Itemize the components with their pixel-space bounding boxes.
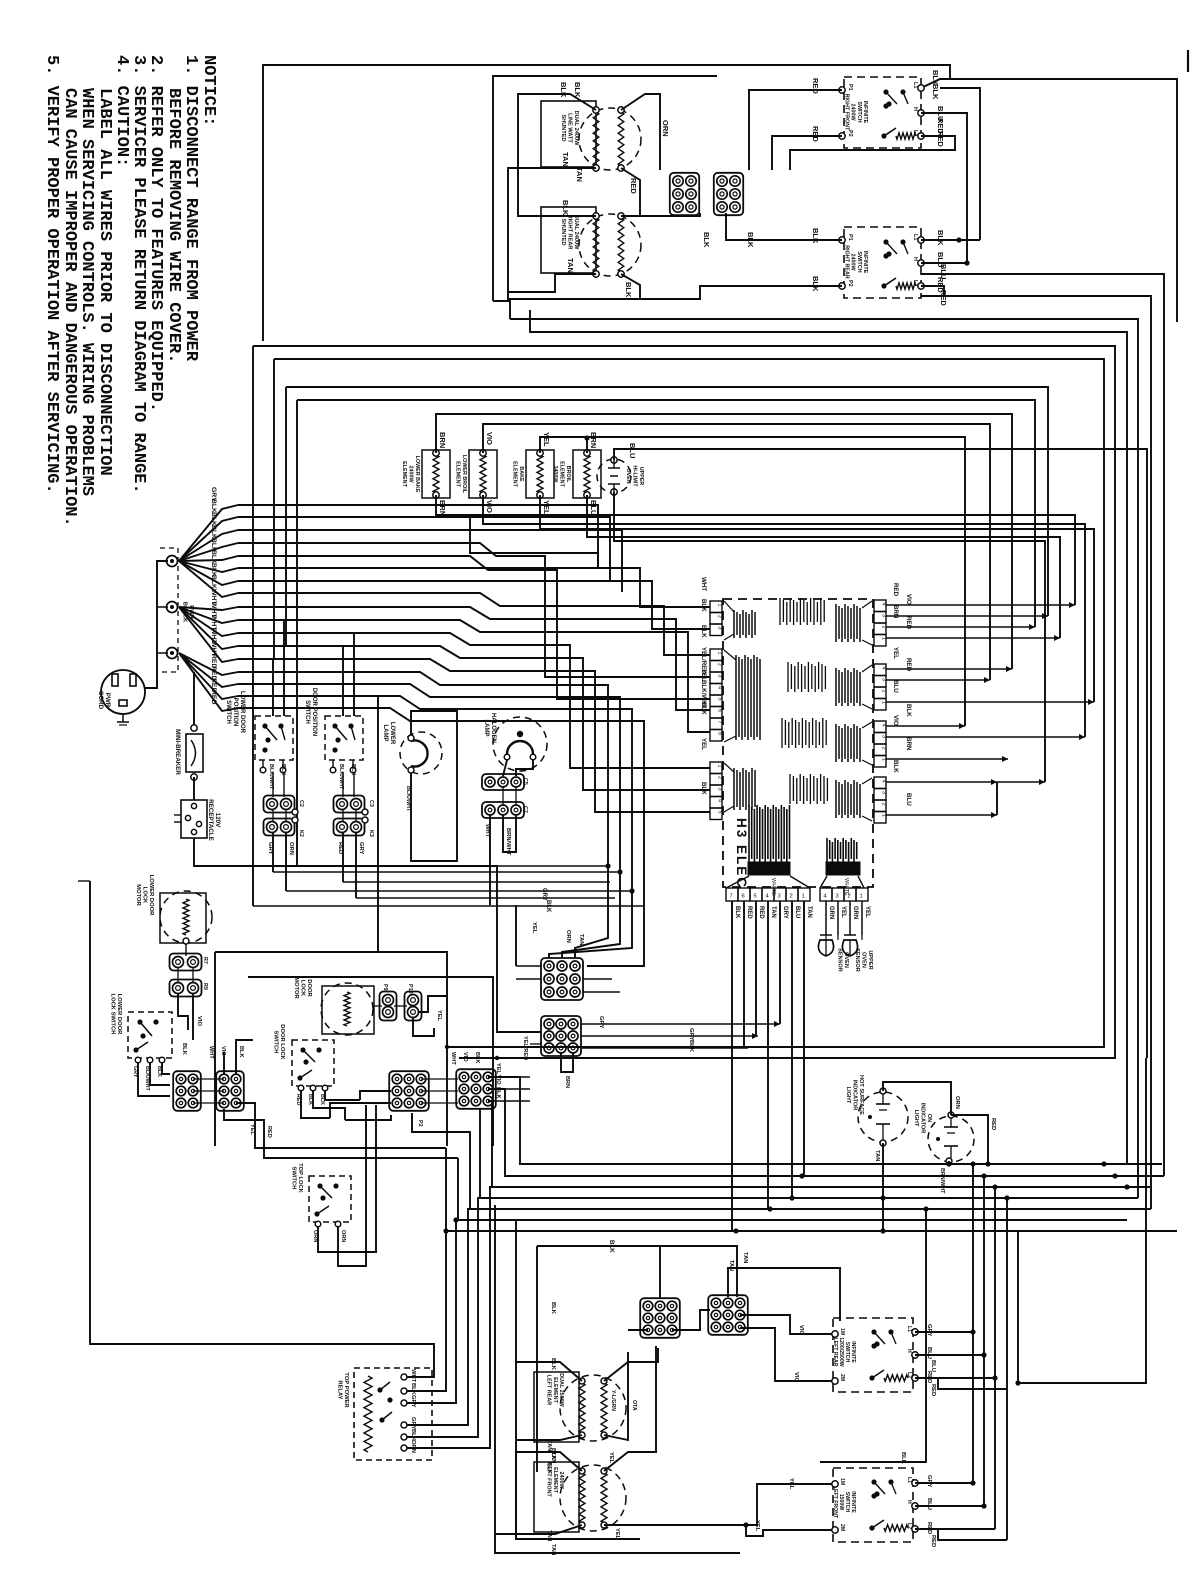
- board internal text block P8: [735, 655, 737, 740]
- svg-text:L1: L1: [912, 82, 918, 88]
- svg-text:BLK: BLK: [210, 550, 217, 564]
- resistor lower broil element: [469, 450, 497, 498]
- svg-text:DUAL 2500W: DUAL 2500W: [558, 1373, 564, 1407]
- svg-text:LOCK: LOCK: [299, 980, 305, 997]
- svg-text:L2: L2: [912, 130, 918, 136]
- svg-text:OTA: OTA: [631, 1400, 637, 1411]
- wire run y332: [530, 310, 1127, 1164]
- svg-text:R7: R7: [202, 957, 208, 964]
- svg-text:BRN: BRN: [589, 432, 598, 448]
- svg-text:2400W: 2400W: [558, 1471, 564, 1489]
- svg-text:2: 2: [717, 663, 723, 666]
- svg-text:P2: P2: [847, 130, 853, 137]
- svg-text:TAN: TAN: [742, 1252, 748, 1263]
- wire bottom pin runs: [731, 901, 733, 1231]
- svg-text:INFINITE: INFINITE: [862, 251, 868, 274]
- svg-text:VIO: VIO: [892, 715, 899, 726]
- bundle mid horizontals: [343, 881, 610, 883]
- connector pair C3: [334, 796, 365, 813]
- svg-text:LAMP: LAMP: [382, 725, 388, 742]
- svg-text:RECEPTACLE: RECEPTACLE: [207, 799, 214, 840]
- wire RED element to connector: [621, 168, 673, 216]
- svg-text:GRY: GRY: [358, 842, 364, 854]
- wire run y346: [253, 346, 1115, 1058]
- svg-text:RELAY: RELAY: [336, 1380, 342, 1399]
- wires connectors bottom: [659, 1246, 661, 1299]
- svg-text:PWR: PWR: [104, 693, 111, 708]
- svg-text:3400W: 3400W: [552, 465, 558, 483]
- board internal text block P11: [835, 724, 837, 762]
- junction dots switch verticals: [970, 1161, 975, 1166]
- wires door lock switch down: [301, 1091, 330, 1118]
- board bottom connector white 4pin: [820, 888, 832, 901]
- connector P2 3x3: [389, 1071, 429, 1111]
- element left front: [560, 1465, 626, 1531]
- svg-text:YEL: YEL: [542, 500, 551, 515]
- top power relay terminals: [401, 1374, 407, 1380]
- bus blk 593: [238, 593, 710, 655]
- svg-text:LEFT REAR: LEFT REAR: [832, 1337, 838, 1366]
- svg-text:RED: RED: [210, 690, 217, 704]
- junction arrows relay: [443, 1228, 448, 1233]
- svg-text:GRY: GRY: [926, 1475, 932, 1487]
- svg-text:BLK: BLK: [550, 1358, 556, 1371]
- bus wht 646: [238, 646, 710, 790]
- board right connector P6: [874, 664, 886, 676]
- board internal text block P6: [835, 668, 837, 706]
- wire plug to block: [145, 561, 168, 688]
- svg-text:ORN: ORN: [565, 930, 571, 943]
- connector C7 1x3: [482, 802, 524, 818]
- wires top lock switch hairpins: [318, 1105, 376, 1252]
- svg-text:L2: L2: [906, 1523, 912, 1529]
- svg-text:1M: 1M: [839, 1328, 845, 1335]
- connector C5 1x3: [482, 774, 524, 790]
- connector P14 3x3: [640, 1298, 680, 1338]
- svg-text:L2: L2: [912, 280, 918, 286]
- sensor wire joins: [837, 935, 839, 940]
- wires B2 up: [236, 1040, 253, 1074]
- svg-text:2400W: 2400W: [408, 465, 414, 483]
- connector C102 2x3: [714, 173, 743, 215]
- svg-text:P10: P10: [407, 984, 413, 994]
- connector block B1 2x3: [173, 1071, 201, 1111]
- svg-text:LIGHT: LIGHT: [845, 1087, 851, 1104]
- bus wht 607: [238, 607, 710, 710]
- connector R9 pair: [170, 980, 202, 997]
- svg-text:K2: K2: [298, 830, 304, 837]
- svg-text:P2: P2: [417, 1120, 423, 1127]
- bottom box mid: [516, 1220, 640, 1539]
- svg-text:HI-LIMIT: HI-LIMIT: [632, 465, 638, 487]
- svg-text:YEL: YEL: [542, 432, 551, 447]
- svg-text:C7: C7: [522, 806, 528, 813]
- halogen lamp: [493, 717, 547, 771]
- wire run y400: [297, 400, 1035, 627]
- svg-text:DUAL 2400W: DUAL 2400W: [573, 215, 579, 250]
- upper hi-limit: [597, 459, 631, 493]
- wires element left side: [518, 94, 596, 216]
- connector P15 3x3: [708, 1295, 748, 1335]
- svg-text:C5: C5: [522, 778, 528, 785]
- svg-text:BLK: BLK: [410, 1383, 416, 1396]
- svg-text:RED: RED: [905, 658, 912, 672]
- top power relay: [354, 1368, 432, 1460]
- bus blk 543: [238, 543, 710, 677]
- wire ORN element to connector: [621, 94, 660, 170]
- svg-text:ELEMENT: ELEMENT: [559, 461, 565, 487]
- svg-text:ELEMENT: ELEMENT: [455, 461, 461, 487]
- svg-text:BLK: BLK: [238, 1046, 244, 1058]
- svg-text:H: H: [906, 1349, 912, 1353]
- wires sw2: [726, 213, 842, 240]
- svg-text:2: 2: [717, 615, 723, 618]
- bus blk 530: [238, 530, 622, 592]
- svg-text:ELEMENT: ELEMENT: [552, 1377, 558, 1403]
- infinite switch left front bottom: [833, 1468, 913, 1542]
- svg-text:RED: RED: [905, 616, 912, 630]
- wires relay right: [407, 1231, 446, 1391]
- svg-text:BLK: BLK: [811, 276, 820, 292]
- wires element LF: [516, 1452, 582, 1539]
- bus blk 517: [238, 517, 610, 580]
- svg-text:RED: RED: [930, 1384, 936, 1396]
- svg-text:TAN: TAN: [575, 167, 584, 182]
- svg-text:1: 1: [717, 604, 723, 607]
- svg-text:2: 2: [881, 747, 887, 750]
- infinite switch left rear bottom: [833, 1318, 913, 1392]
- svg-text:DOOR LOCK: DOOR LOCK: [279, 1024, 285, 1060]
- svg-text:BLU: BLU: [628, 443, 637, 458]
- board bottom text block big: [748, 805, 750, 862]
- svg-text:OVEN: OVEN: [861, 952, 867, 968]
- svg-text:DOOR: DOOR: [306, 979, 312, 997]
- connector P10 pair: [405, 992, 422, 1021]
- svg-text:BLU: BLU: [892, 680, 899, 693]
- svg-text:RED: RED: [990, 1118, 996, 1130]
- wires indicator tops: [883, 1082, 951, 1115]
- svg-text:BLK: BLK: [550, 1448, 556, 1461]
- svg-text:VIO: VIO: [196, 1016, 202, 1026]
- svg-text:YEL: YEL: [700, 738, 707, 750]
- board bottom fan right: [820, 876, 827, 888]
- board right connector P12: [874, 777, 886, 789]
- svg-text:BLK: BLK: [559, 82, 568, 98]
- door lock motor: [322, 986, 374, 1034]
- on indicator light: [928, 1116, 974, 1162]
- bus blk 568: [238, 568, 710, 607]
- infinite switch right rear: [844, 227, 921, 298]
- board bottom text block small: [826, 838, 828, 862]
- svg-text:GRY: GRY: [410, 1417, 416, 1429]
- svg-text:RED: RED: [811, 78, 820, 94]
- svg-text:RIGHT REAR: RIGHT REAR: [567, 215, 573, 250]
- svg-text:YEL: YEL: [249, 1124, 255, 1135]
- cluster inner wire rect: [248, 977, 493, 1146]
- svg-text:2M: 2M: [839, 1374, 845, 1381]
- svg-text:MOTOR: MOTOR: [135, 884, 141, 906]
- svg-text:LAMP: LAMP: [483, 720, 489, 737]
- wire left edge 253: [252, 346, 254, 906]
- wire bottom jog: [436, 515, 598, 568]
- svg-text:BLK: BLK: [936, 230, 945, 246]
- svg-text:BLK: BLK: [700, 782, 707, 795]
- page edge mark: [1187, 50, 1189, 72]
- svg-text:2: 2: [790, 894, 793, 900]
- bottom box inner: [536, 1246, 538, 1472]
- svg-text:BLK: BLK: [702, 232, 711, 248]
- svg-text:BLK: BLK: [280, 764, 286, 775]
- svg-text:5: 5: [717, 811, 723, 814]
- svg-text:YEL: YEL: [531, 922, 537, 934]
- bus blk 556: [238, 556, 710, 699]
- bus red 672: [238, 672, 608, 958]
- svg-text:BLK: BLK: [210, 525, 217, 539]
- wire BLK sw1-sw2 link: [940, 88, 980, 240]
- svg-text:ORN: ORN: [288, 842, 294, 855]
- lower door lock switch: [128, 1012, 172, 1058]
- svg-text:120V: 120V: [214, 813, 221, 828]
- svg-text:3: 3: [881, 735, 887, 738]
- svg-text:RED: RED: [930, 1535, 936, 1547]
- bus red 684: [238, 684, 620, 958]
- wire blk sw4 top: [820, 1209, 926, 1462]
- svg-text:3: 3: [717, 788, 723, 791]
- svg-text:BLK: BLK: [624, 282, 633, 298]
- svg-text:BAKE: BAKE: [518, 466, 524, 482]
- wires down from K3: [342, 833, 344, 882]
- wire run y319: [493, 301, 510, 319]
- svg-text:SENSOR: SENSOR: [854, 948, 860, 972]
- connector M2 3x3: [541, 1016, 581, 1056]
- svg-text:P1: P1: [847, 234, 853, 241]
- svg-text:4: 4: [881, 667, 887, 670]
- svg-text:RED: RED: [337, 842, 343, 854]
- svg-text:WHT: WHT: [700, 577, 707, 591]
- svg-text:YEL/RED: YEL/RED: [522, 1036, 528, 1060]
- svg-text:2: 2: [881, 690, 887, 693]
- svg-text:UPPER: UPPER: [867, 950, 873, 969]
- board bottom fan left: [726, 876, 749, 888]
- svg-text:P9: P9: [382, 984, 388, 991]
- svg-text:BRN: BRN: [438, 432, 447, 448]
- svg-text:BLK: BLK: [892, 760, 899, 773]
- board bottom connector white 7pin: [726, 888, 738, 901]
- svg-text:WHT: WHT: [410, 1369, 416, 1383]
- infinite switch right front: [844, 77, 921, 148]
- wire RED sw2 to right bus: [921, 286, 1151, 1209]
- svg-text:INDICATOR: INDICATOR: [852, 1080, 858, 1111]
- svg-text:3: 3: [836, 894, 839, 900]
- svg-text:INFINITE: INFINITE: [862, 101, 868, 124]
- board internal text block P1: [733, 768, 735, 810]
- svg-text:TOP LOCK: TOP LOCK: [297, 1163, 303, 1194]
- terminal node N: [170, 605, 174, 609]
- svg-text:SWITCH: SWITCH: [856, 101, 862, 122]
- connector pair C2: [264, 796, 295, 813]
- svg-text:BLK: BLK: [811, 228, 820, 244]
- svg-text:DOOR POSITION: DOOR POSITION: [311, 688, 317, 736]
- upper oven sensor: [842, 940, 857, 956]
- svg-text:H: H: [912, 257, 918, 261]
- board left connector P1: [710, 762, 722, 774]
- svg-text:SWITCH: SWITCH: [304, 700, 310, 724]
- big left rectangle wire: [90, 881, 434, 1377]
- svg-text:OVEN: OVEN: [625, 468, 631, 483]
- svg-text:4: 4: [881, 724, 887, 727]
- svg-text:SWITCH: SWITCH: [225, 700, 231, 724]
- wires P2 left: [330, 1103, 391, 1118]
- svg-text:8: 8: [717, 732, 723, 735]
- bus wht 620: [238, 620, 710, 732]
- svg-text:4: 4: [881, 780, 887, 783]
- svg-text:BLU: BLU: [794, 906, 800, 918]
- svg-text:BLK: BLK: [905, 704, 912, 717]
- svg-text:BLK: BLK: [700, 625, 707, 638]
- wires R9 down: [178, 994, 188, 1030]
- wires element row tops: [436, 414, 1012, 669]
- svg-text:BLK: BLK: [210, 575, 217, 589]
- svg-text:H: H: [912, 107, 918, 111]
- svg-text:BRN: BRN: [892, 605, 899, 619]
- lower door lock switch terminals: [135, 1057, 141, 1063]
- board left connector P13: [710, 601, 722, 613]
- wire BLK el2 to connector: [621, 213, 700, 216]
- wire el2 bottom right: [621, 274, 640, 299]
- svg-text:BLK: BLK: [210, 512, 217, 526]
- svg-text:GRY: GRY: [598, 1016, 604, 1028]
- power block dashed outline: [160, 548, 178, 672]
- svg-text:VIO: VIO: [905, 594, 912, 605]
- svg-text:2: 2: [881, 803, 887, 806]
- lower door position switch: [255, 716, 293, 760]
- verticals to switches: [972, 1164, 974, 1483]
- svg-text:BLK: BLK: [700, 702, 707, 715]
- wires lower lamp: [411, 711, 457, 861]
- svg-text:LOWER DOOR: LOWER DOOR: [148, 875, 154, 916]
- bottom box outer: [495, 1205, 740, 1553]
- junction dots right buses: [880, 1195, 885, 1200]
- wire BLU sw2 to right bus: [921, 274, 1164, 1176]
- svg-text:VIO: VIO: [485, 500, 494, 513]
- svg-text:K3: K3: [368, 830, 374, 837]
- board right pin wires: [886, 604, 1075, 606]
- svg-text:RIGHT FRONT: RIGHT FRONT: [843, 94, 849, 132]
- wires element row bottoms: [436, 495, 1075, 605]
- svg-text:VIO: VIO: [793, 1372, 799, 1382]
- svg-text:BLK: BLK: [210, 499, 217, 513]
- svg-text:BLU: BLU: [905, 793, 912, 806]
- svg-text:RED: RED: [266, 1126, 272, 1138]
- svg-text:SHUNTED: SHUNTED: [560, 114, 566, 141]
- dual element right front: [579, 214, 641, 276]
- wires sw1: [749, 90, 842, 170]
- svg-text:TAN: TAN: [561, 152, 570, 167]
- svg-text:VIO: VIO: [462, 1052, 468, 1062]
- svg-text:ORN: ORN: [340, 1230, 346, 1242]
- wires lower door position switch: [272, 659, 274, 716]
- wires element LR: [516, 1362, 582, 1381]
- svg-text:YEL: YEL: [754, 1520, 760, 1532]
- resistor broil element: [573, 450, 601, 498]
- wires B2 right: [236, 1103, 446, 1148]
- svg-text:BLU: BLU: [926, 1498, 932, 1510]
- lower lamp: [400, 732, 442, 774]
- svg-text:ELEMENT: ELEMENT: [512, 461, 518, 487]
- wire blk top of elements: [537, 1246, 737, 1290]
- svg-text:L1: L1: [906, 1326, 912, 1332]
- fan wires black from L1: [179, 505, 238, 561]
- svg-text:L1: L1: [912, 234, 918, 240]
- mini breaker: [193, 672, 195, 728]
- wires M1 right: [583, 978, 612, 980]
- svg-text:YEL: YEL: [614, 1528, 620, 1540]
- svg-text:BLK/WHT: BLK/WHT: [338, 764, 344, 790]
- svg-text:3: 3: [881, 678, 887, 681]
- svg-text:LOWER BAKE: LOWER BAKE: [414, 456, 420, 493]
- svg-text:RED: RED: [629, 178, 638, 194]
- wire horizontal 1383: [1018, 1058, 1146, 1383]
- svg-text:WHITE: WHITE: [770, 878, 776, 896]
- svg-text:1: 1: [717, 652, 723, 655]
- svg-text:1: 1: [802, 894, 805, 900]
- svg-text:HALOGEN: HALOGEN: [490, 713, 496, 743]
- svg-text:BEFORE REMOVING WIRE COVER.: BEFORE REMOVING WIRE COVER.: [164, 88, 183, 363]
- svg-text:TOP POWER: TOP POWER: [343, 1372, 349, 1408]
- connector block B2 2x3: [216, 1071, 244, 1111]
- svg-text:2400W: 2400W: [850, 103, 856, 121]
- svg-text:LEFT FRONT: LEFT FRONT: [832, 1486, 838, 1519]
- 120V receptacle: [181, 800, 207, 838]
- svg-text:POSITION: POSITION: [232, 698, 238, 727]
- svg-text:MOTOR: MOTOR: [293, 977, 299, 999]
- svg-text:RED: RED: [746, 906, 752, 919]
- svg-text:ORN: ORN: [661, 120, 670, 137]
- terminal node L2: [170, 651, 174, 655]
- svg-text:1: 1: [881, 701, 887, 704]
- svg-text:WHT: WHT: [450, 1052, 456, 1065]
- board right connector P5: [874, 600, 886, 612]
- wires motor to connectors: [185, 944, 187, 956]
- resistor bake element: [526, 450, 554, 498]
- svg-text:P2: P2: [847, 280, 853, 287]
- svg-text:LOWER: LOWER: [389, 722, 395, 745]
- svg-text:INDICATOR: INDICATOR: [920, 1103, 926, 1134]
- wires down from K2: [272, 833, 274, 872]
- board left connector P8: [710, 649, 722, 661]
- svg-text:RED: RED: [892, 583, 899, 597]
- connector M1 3x3: [541, 958, 583, 1000]
- svg-text:ORN: ORN: [410, 1440, 416, 1453]
- svg-text:ON: ON: [926, 1114, 932, 1122]
- svg-text:HOT SURFACE: HOT SURFACE: [858, 1075, 864, 1115]
- wire receptacle down: [194, 838, 497, 905]
- wire hot light tan down: [882, 1143, 884, 1231]
- wires connector down: [489, 815, 491, 905]
- wire run y359: [274, 359, 1104, 1047]
- hot surface indicator light: [858, 1092, 908, 1142]
- svg-text:BRN: BRN: [564, 1076, 570, 1088]
- svg-text:TAN: TAN: [546, 1530, 552, 1541]
- svg-text:SHUNTED: SHUNTED: [560, 218, 566, 245]
- svg-text:BLK/WHT: BLK/WHT: [405, 786, 411, 812]
- svg-text:BRN: BRN: [905, 737, 912, 751]
- svg-text:RED: RED: [758, 906, 764, 919]
- svg-text:YEL: YEL: [436, 1010, 442, 1021]
- wire L1 sw1 to right vertical: [921, 79, 1177, 322]
- svg-text:GRY: GRY: [782, 906, 788, 919]
- svg-text:LOWER DOOR: LOWER DOOR: [239, 691, 245, 734]
